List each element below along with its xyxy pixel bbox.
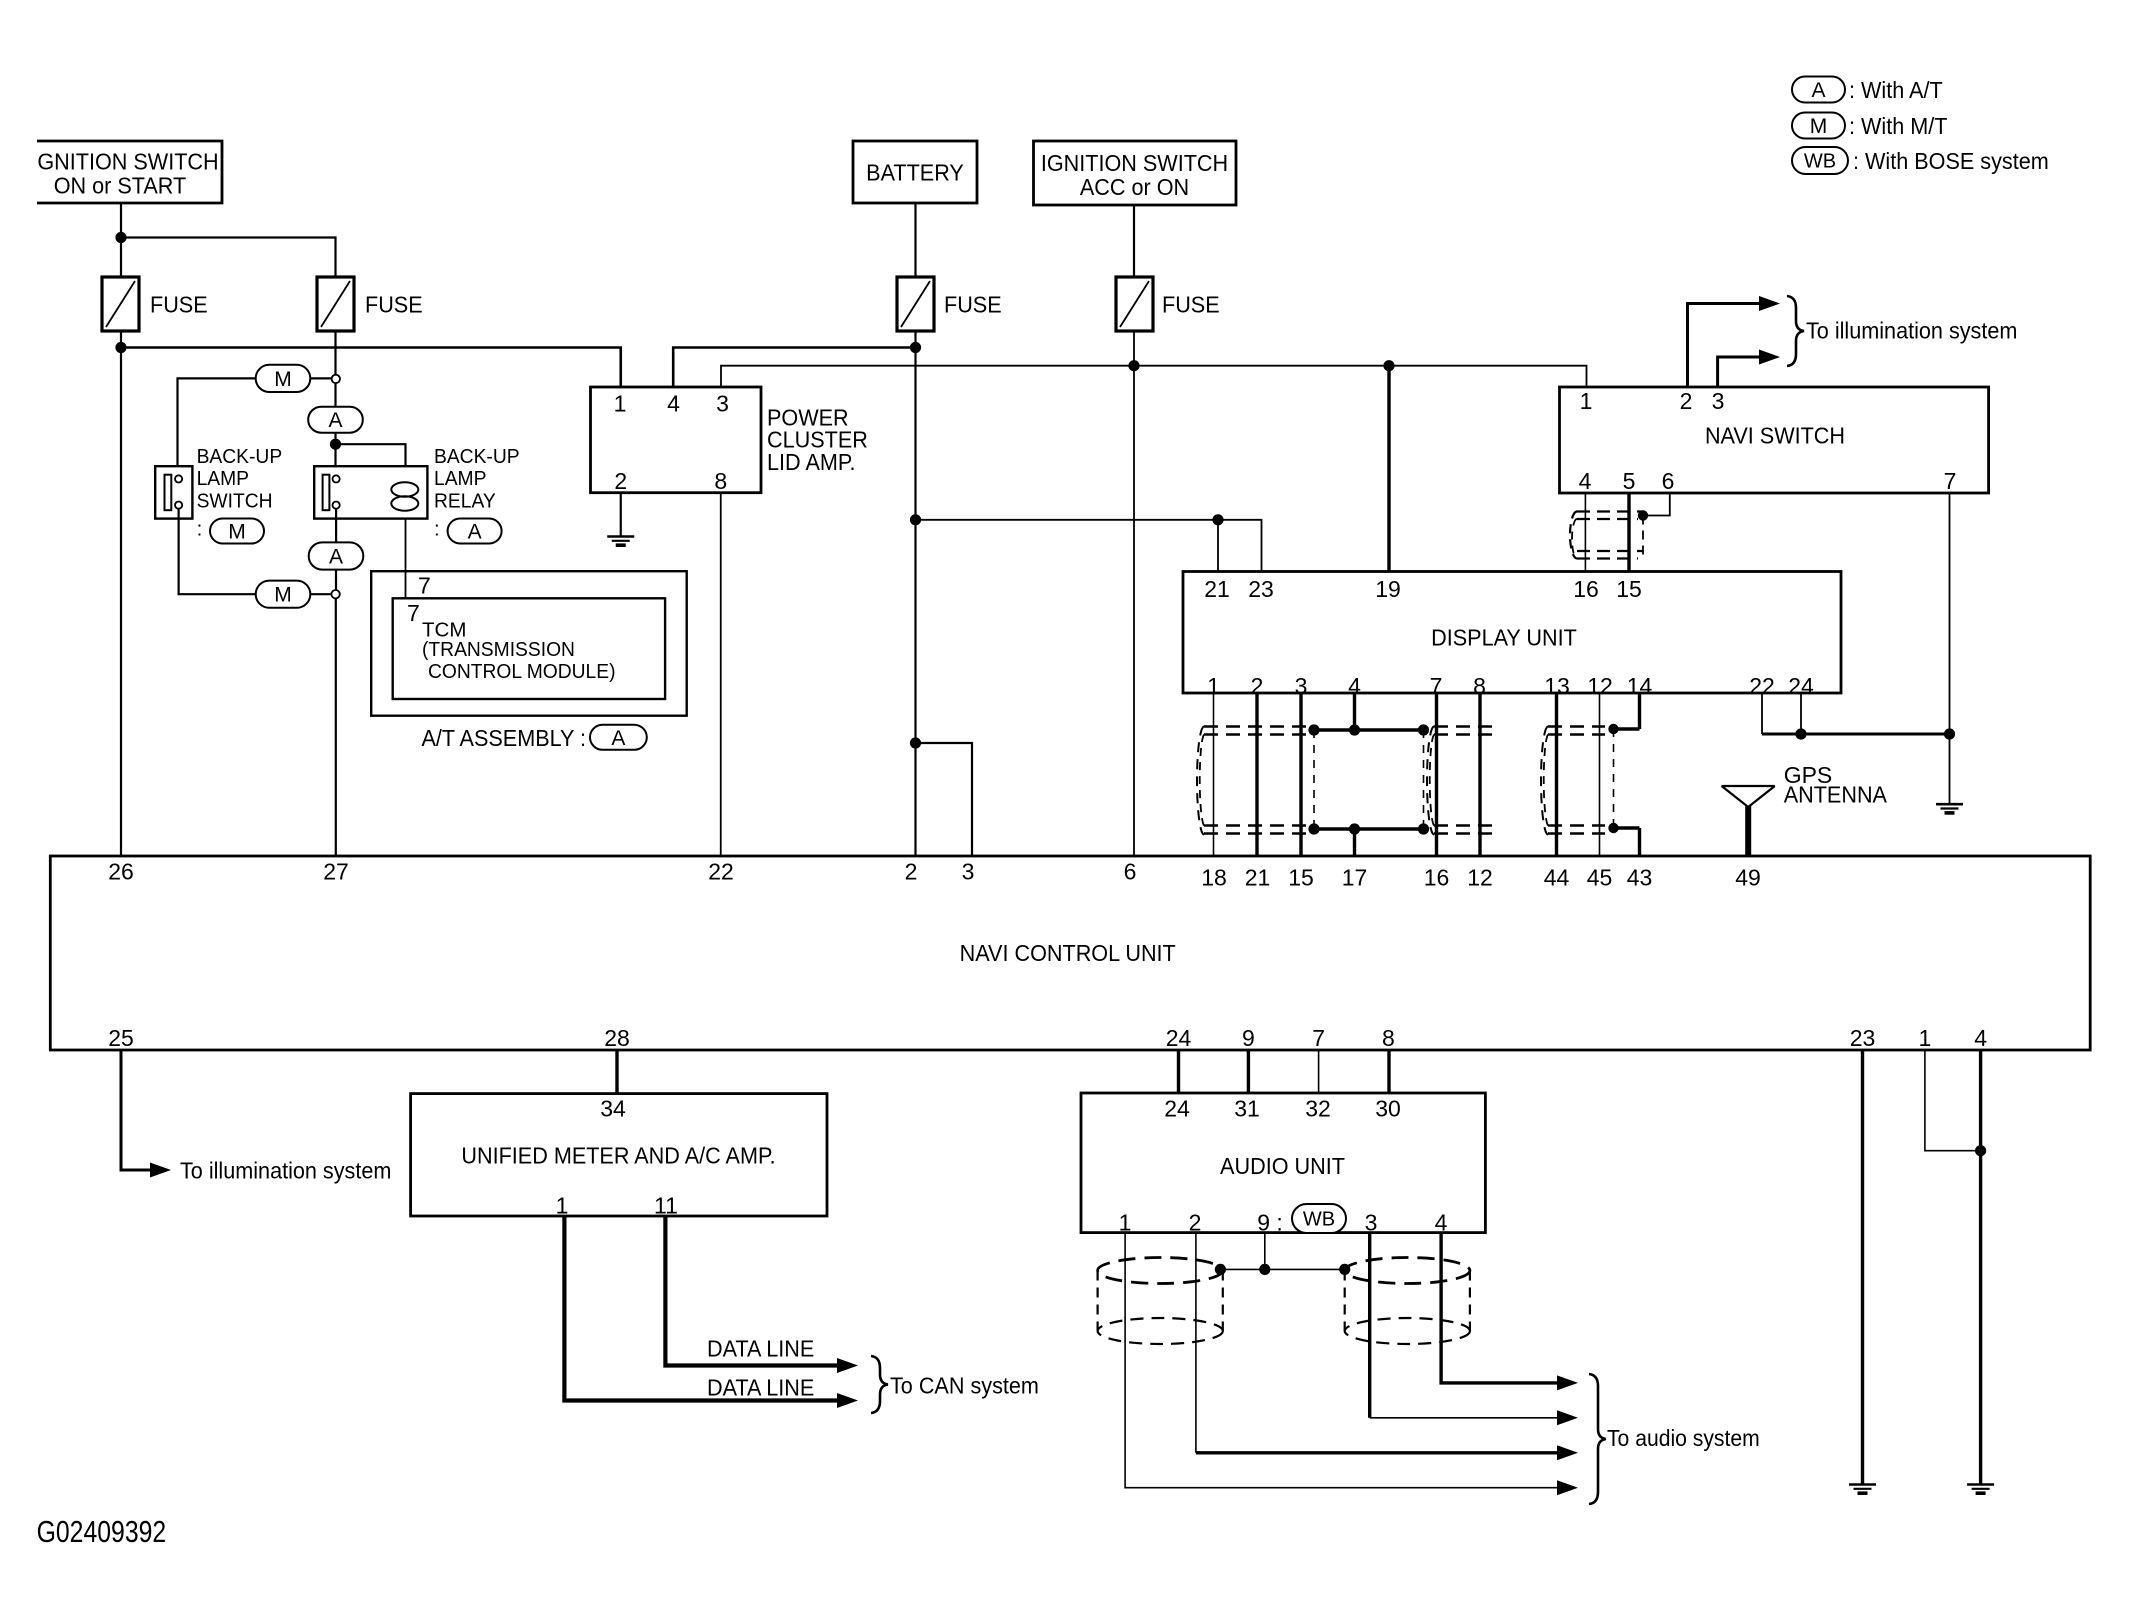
svg-text:9: 9 [1242,1025,1255,1051]
svg-text:SWITCH: SWITCH [197,490,273,513]
junction NCU 1/4 [1975,1145,1986,1156]
wire branch to NCU pin 3 [916,743,973,856]
arrow illumination 2 [1759,350,1780,365]
svg-text:21: 21 [1245,865,1271,891]
wire display 22/24 to ground line [1762,733,1950,736]
navi switch label [1705,423,1845,449]
svg-text:A: A [611,727,625,750]
svg-text:25: 25 [108,1025,134,1051]
brace illumination [1787,296,1804,366]
svg-text:32: 32 [1305,1096,1331,1122]
display unit box [1183,572,1841,694]
wire branch to relay coil [336,444,406,466]
shield ring sides [1313,730,1315,829]
arrow audio 3 [1557,1445,1578,1460]
audio shield cylinder left [1098,1258,1223,1284]
legend M/T condition oval [1792,113,1845,139]
junction relay branch [330,439,341,450]
fuse F3 [897,277,934,331]
wire NCU 23 to ground [1861,1050,1864,1485]
wire fuse1 to NCU pin 26 [120,331,122,856]
svg-text:A: A [329,546,343,569]
svg-text:26: 26 [108,859,134,885]
svg-text:BATTERY: BATTERY [866,160,964,186]
wire lamp switch to M oval bottom [179,509,257,595]
wire ignition ON to fuses [120,203,122,277]
svg-text:AUDIO UNIT: AUDIO UNIT [1220,1154,1345,1180]
junction fuse1 rail [115,342,126,353]
data line label 2 [707,1375,814,1401]
to illumination system label (bottom) [180,1158,391,1184]
fuse F2 label [365,292,423,318]
wire display 12 to NCU 45 [1599,693,1601,856]
wire shield link [1220,1268,1344,1270]
svg-text:3: 3 [962,859,975,885]
ground (NCU 4) [1967,1483,1994,1486]
svg-text:16: 16 [1573,576,1599,602]
wire display 1 to NCU 18 [1213,693,1215,856]
arrow illumination (bottom) [150,1163,171,1178]
svg-text:4: 4 [667,391,680,417]
shield cylinder (display 7/8 wires) [1434,725,1496,727]
svg-text:8: 8 [714,468,727,494]
svg-text:9 :: 9 : [1257,1210,1283,1236]
back-up lamp relay coil [391,482,418,496]
legend BOSE text [1853,149,2049,175]
svg-text:43: 43 [1627,865,1653,891]
condition oval M (switch to NCU) [256,581,311,608]
fuse F2 [317,277,354,331]
svg-text:1: 1 [614,391,627,417]
junction display21 branch [910,514,921,525]
junction battery rail [910,342,921,353]
wire unified meter 11 data line [665,1216,845,1366]
junction display 24 [1795,728,1806,739]
svg-text:4: 4 [1974,1025,1987,1051]
ground (power cluster) [607,535,634,538]
to CAN system label [890,1373,1039,1399]
wire NCU 24 to audio 24 [1177,1050,1180,1093]
svg-text:5: 5 [1623,468,1636,494]
back-up lamp switch box [155,466,192,518]
svg-text:NAVI CONTROL UNIT: NAVI CONTROL UNIT [960,941,1176,967]
svg-text:1: 1 [1119,1210,1132,1236]
wire relay coil to TCM pin 7 [405,519,407,599]
ignition switch ON or START box [37,141,222,203]
wire display 3 to NCU 15 [1299,693,1302,856]
wire fuse4 to NCU pin 6 [1133,331,1135,856]
wire navi switch pin 3 to illumination [1718,357,1767,387]
shield ring bottom [1314,827,1424,830]
shield cylinder (navi 4/5) [1577,510,1643,512]
wire battery to fuse 3 [914,203,916,277]
svg-text:FUSE: FUSE [1162,292,1220,318]
legend A/T condition oval [1792,77,1845,103]
brace CAN [871,1356,888,1413]
svg-text:DATA LINE: DATA LINE [707,1375,814,1401]
svg-text:BACK-UP: BACK-UP [434,446,520,469]
junction shield left [1215,1264,1226,1275]
arrow illumination 1 [1759,296,1780,311]
svg-text:GNITION SWITCH: GNITION SWITCH [37,149,218,175]
wire navi switch pin 7 down [1949,493,1951,804]
junction ignition ON branch [115,232,126,243]
wire relay contact to A oval [335,509,337,542]
shield cylinder (display 1/2 wires) [1204,725,1308,727]
fuse F4 label [1162,292,1220,318]
wire audio 9 to shield [1264,1233,1266,1270]
junction shield mid [1259,1264,1270,1275]
svg-text:27: 27 [323,859,349,885]
back-up lamp switch pin top [175,475,182,482]
condition oval WB (audio pin 9) [1292,1204,1346,1233]
svg-text:ACC or ON: ACC or ON [1080,175,1189,201]
display unit label [1431,625,1577,651]
svg-text:: With BOSE system: : With BOSE system [1853,149,2049,175]
wire NCU 4 to ground [1979,1050,1982,1485]
svg-text:WB: WB [1303,1209,1335,1231]
wire audio 1 to audio system [1125,1233,1572,1488]
wire NCU 28 to unified meter 34 [615,1050,618,1094]
svg-text:RELAY: RELAY [434,490,496,513]
svg-text:3: 3 [1712,388,1725,414]
svg-text:7: 7 [418,573,431,599]
junction battery pin3 branch [910,737,921,748]
condition oval M (fuse2 branch) [256,365,311,392]
ignition switch ACC or ON label [1041,151,1228,177]
arrow audio 2 [1557,1410,1578,1425]
A/T assembly label [422,726,587,752]
svg-text:LAMP: LAMP [197,468,249,491]
back-up lamp switch pin bottom [175,502,182,509]
svg-text:2: 2 [614,468,627,494]
wire display 8 to NCU 12 [1478,693,1481,856]
svg-text:UNIFIED METER AND A/C AMP.: UNIFIED METER AND A/C AMP. [461,1143,775,1169]
wire display 22 down [1761,693,1763,734]
svg-text:1: 1 [1580,388,1593,414]
svg-text:IGNITION SWITCH: IGNITION SWITCH [1041,151,1228,177]
svg-text:M: M [274,368,292,391]
svg-text:M: M [274,584,292,607]
junction pin7 ground line [1944,728,1955,739]
svg-text:(TRANSMISSION: (TRANSMISSION [422,639,575,662]
svg-text:45: 45 [1587,865,1613,891]
svg-text:M: M [1810,115,1828,138]
svg-text:LAMP: LAMP [434,468,486,491]
svg-text:2: 2 [1680,388,1693,414]
navi control unit box [50,856,2090,1050]
battery box [853,141,977,203]
wire audio 3 to audio system [1368,1233,1371,1418]
wire power cluster pin 4 to battery junction [673,348,915,388]
svg-text:1: 1 [1919,1025,1932,1051]
svg-text:34: 34 [600,1096,626,1122]
svg-text:WB: WB [1804,151,1836,173]
svg-text:NAVI SWITCH: NAVI SWITCH [1705,423,1845,449]
junction fuse4 on rail [1128,360,1139,371]
svg-text:18: 18 [1201,865,1227,891]
svg-text:CONTROL MODULE): CONTROL MODULE) [428,661,616,684]
wire NCU 9 to audio 31 [1247,1050,1250,1093]
svg-text:15: 15 [1288,865,1314,891]
to illumination system label (top) [1806,318,2017,344]
arrow CAN 2 [837,1358,858,1373]
svg-text:49: 49 [1735,865,1761,891]
to audio system label [1607,1425,1760,1451]
back-up lamp relay pin bottom [333,502,340,509]
svg-text:A/T ASSEMBLY :: A/T ASSEMBLY : [422,726,587,752]
fuse F3 label [944,292,1002,318]
svg-text:6: 6 [1124,859,1137,885]
back-up lamp switch contact bar [165,475,172,511]
brace audio [1589,1374,1606,1504]
svg-text:To CAN system: To CAN system [890,1373,1039,1399]
wire NCU 1 joins pin 4 wire [1925,1050,1981,1151]
back-up lamp switch label [197,446,283,469]
svg-text:A: A [328,409,342,432]
svg-text:A: A [468,521,482,544]
svg-text:23: 23 [1850,1025,1876,1051]
back-up lamp relay box [314,466,427,518]
svg-text:FUSE: FUSE [150,292,208,318]
arrow CAN 1 [837,1393,858,1408]
svg-text:A: A [1811,79,1825,102]
GPS antenna symbol [1722,785,1775,787]
legend A/T text [1849,78,1943,104]
wire navi switch pin 4 to display pin 16 [1584,493,1586,572]
svg-text:4: 4 [1579,468,1592,494]
wire to display pin 21 [1217,520,1219,572]
wire NCU 8 to audio 30 [1387,1050,1390,1093]
svg-text:3: 3 [716,391,729,417]
svg-text:8: 8 [1382,1025,1395,1051]
svg-text::: : [434,518,440,541]
TCM A/T assembly outer box [371,571,687,716]
wire power cluster pin 2 to ground [620,493,622,536]
wire rail to display pin 19 [1387,366,1390,572]
wire NCU 25 to illumination [121,1050,158,1170]
svg-text:31: 31 [1234,1096,1260,1122]
data line label 1 [707,1336,814,1362]
legend M/T text [1849,114,1948,140]
junction display pin19 branch [1383,360,1394,371]
audio unit box [1081,1093,1485,1233]
shield drain (44/45) [1608,724,1618,734]
wire audio 2 to audio system [1195,1233,1197,1453]
svg-text:FUSE: FUSE [365,292,423,318]
wire display 4 to shield ring [1353,693,1356,730]
figure number G02409392 [37,1514,167,1548]
fuse F1 label [150,292,208,318]
svg-text:M: M [228,521,246,544]
svg-text:30: 30 [1375,1096,1401,1122]
wire power cluster pin 8 to NCU pin 22 [720,493,722,856]
svg-text:1: 1 [556,1193,569,1219]
wire M oval to open circle [310,377,332,379]
fuse F4 [1116,277,1153,331]
junction display pin 21 [1212,514,1223,525]
junction shield right [1339,1264,1350,1275]
shield ring top [1314,728,1424,731]
wire M oval to lamp switch [178,378,256,466]
navi switch box [1560,387,1989,493]
svg-text:ON or START: ON or START [54,173,187,199]
svg-text:To illumination system: To illumination system [1806,318,2017,344]
svg-text:7: 7 [1312,1025,1325,1051]
wire display 14 to shield drain [1638,693,1641,729]
svg-text:28: 28 [604,1025,630,1051]
svg-text:24: 24 [1164,1096,1190,1122]
back-up lamp relay label [434,446,520,469]
wire power cluster pin 3 rail to navi switch pin 1 [721,366,1587,387]
connector open circle (A/M merge) [331,590,339,598]
wire display 7 to NCU 16 [1435,693,1438,856]
svg-text:15: 15 [1616,576,1642,602]
svg-text:FUSE: FUSE [944,292,1002,318]
fuse F1 [102,277,139,331]
svg-text:BACK-UP: BACK-UP [197,446,283,469]
svg-text:21: 21 [1204,576,1230,602]
svg-text:: With M/T: : With M/T [1849,114,1948,140]
ground (navi pin 7) [1936,803,1963,806]
svg-text:ANTENNA: ANTENNA [1784,782,1887,808]
svg-text:DATA LINE: DATA LINE [707,1336,814,1362]
wire circle to NCU pin 27 [335,598,337,856]
svg-text:6: 6 [1662,468,1675,494]
svg-text:11: 11 [654,1193,678,1219]
svg-text:7: 7 [1944,468,1957,494]
condition oval A (lamp relay) [448,519,502,544]
svg-text:4: 4 [1435,1210,1448,1236]
wire battery line to NCU pin 2 [914,331,916,856]
legend BOSE condition oval [1792,147,1848,174]
svg-text:23: 23 [1248,576,1274,602]
wire audio 4 to audio system [1441,1233,1572,1383]
wire shield drain to NCU 43 [1638,828,1641,856]
wire branch to fuse 2 [121,238,336,278]
svg-text::: : [197,518,203,541]
svg-text:17: 17 [1342,865,1368,891]
wire display 2 to NCU 21 [1255,693,1258,856]
wire fuse2 to M connector [334,331,336,375]
svg-text:16: 16 [1424,865,1450,891]
svg-text:7: 7 [407,600,420,626]
wire battery branch to display pins 21/23 [916,520,1262,572]
back-up lamp relay pin top [333,475,340,482]
junction shield drain (navi) [1638,510,1648,520]
svg-text:3: 3 [1365,1210,1378,1236]
power cluster lid amp box [591,387,762,493]
arrow audio 4 [1557,1480,1578,1495]
battery label [866,160,964,186]
unified meter label [461,1143,775,1169]
wire display 24 down [1800,693,1802,734]
svg-text:To audio system: To audio system [1607,1425,1760,1451]
TCM inner box [393,598,665,699]
wire rail fuse1 to power cluster pin 1 [121,348,621,388]
wire navi switch pin 2 to illumination [1688,304,1768,388]
wire NCU 7 to audio 32 [1318,1050,1320,1093]
svg-text:12: 12 [1467,865,1493,891]
audio shield cylinder right [1345,1258,1470,1284]
svg-text:LID AMP.: LID AMP. [767,450,856,476]
audio unit label [1220,1154,1345,1180]
power cluster lid amp label [767,405,849,431]
unified meter and A/C amp box [411,1094,827,1216]
condition oval M (lamp switch) [210,519,264,544]
condition oval A (relay to NCU) [309,542,364,569]
svg-text:19: 19 [1375,576,1401,602]
wire navi switch pin 6 to shield [1646,493,1670,516]
ground (NCU 23) [1849,1483,1876,1486]
svg-text:G02409392: G02409392 [37,1514,167,1548]
svg-text:: With A/T: : With A/T [1849,78,1943,104]
wire navi switch pin 5 to display pin 15 [1627,493,1630,572]
shield cylinder (display 13/12 wires) [1548,725,1605,727]
svg-text:44: 44 [1544,865,1570,891]
connector open circle (M branch) [332,375,340,383]
ignition switch ACC or ON box [1034,141,1237,205]
wire display 13 to NCU 44 [1555,693,1558,856]
svg-text:2: 2 [1189,1210,1202,1236]
wire ignition ACC to fuse 4 [1133,205,1135,277]
wire A oval to back-up lamp relay [334,433,336,467]
wire A oval to circle [335,570,337,590]
wire unified meter 1 data line [564,1216,845,1401]
condition oval A (A/T assembly) [590,725,647,750]
svg-text:24: 24 [1166,1025,1192,1051]
navi control unit label [960,941,1176,967]
arrow audio 1 [1557,1375,1578,1390]
back-up lamp relay contact bar [323,475,330,511]
ignition switch ON or START label [37,149,218,175]
svg-text:DISPLAY UNIT: DISPLAY UNIT [1431,625,1577,651]
svg-text:To illumination system: To illumination system [180,1158,391,1184]
condition oval A (fuse2 branch) [308,407,363,433]
wire circle to A oval [334,383,336,407]
svg-text:2: 2 [905,859,918,885]
wire shield ring to NCU 17 [1353,829,1356,856]
wire M oval to circle [310,593,332,595]
svg-text:22: 22 [708,859,734,885]
